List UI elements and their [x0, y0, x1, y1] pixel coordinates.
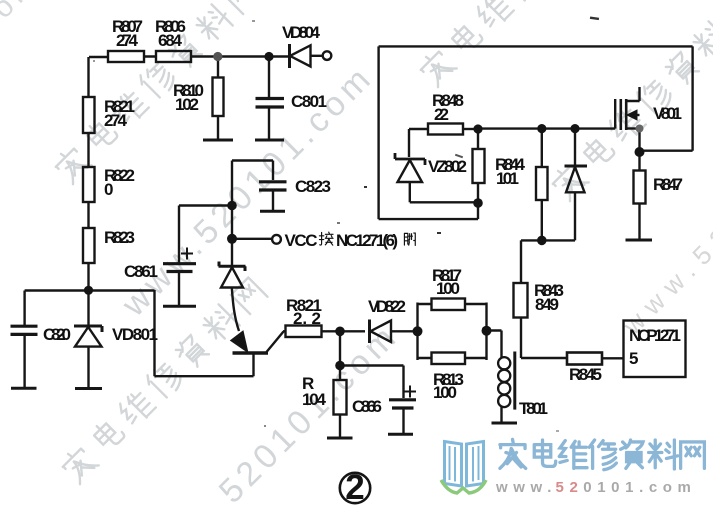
- svg-text:0101.com: 0101.com: [583, 479, 696, 496]
- svg-text:0: 0: [104, 180, 113, 199]
- svg-text:VCC: VCC: [285, 231, 318, 250]
- svg-text:www.: www.: [495, 479, 557, 496]
- svg-text:NCP1271: NCP1271: [629, 326, 681, 345]
- svg-text:VZ802: VZ802: [428, 157, 467, 176]
- svg-text:C866: C866: [352, 397, 382, 416]
- svg-text:NC1271(6): NC1271(6): [336, 231, 398, 250]
- svg-text:2. 2: 2. 2: [293, 309, 321, 328]
- svg-text:C820: C820: [43, 325, 71, 344]
- svg-text:684: 684: [158, 31, 183, 50]
- svg-text:R823: R823: [104, 228, 135, 247]
- svg-text:R847: R847: [653, 175, 683, 194]
- svg-text:5: 5: [629, 349, 638, 368]
- svg-text:101: 101: [496, 169, 519, 188]
- svg-text:C823: C823: [295, 177, 331, 196]
- svg-text:VD804: VD804: [282, 23, 321, 42]
- svg-text:T801: T801: [519, 399, 548, 418]
- svg-text:274: 274: [116, 31, 139, 50]
- svg-text:22: 22: [434, 105, 449, 124]
- svg-text:R845: R845: [569, 365, 602, 384]
- svg-text:849: 849: [535, 295, 559, 314]
- svg-text:100: 100: [433, 383, 457, 402]
- svg-text:100: 100: [436, 279, 460, 298]
- svg-text:VD801: VD801: [112, 325, 158, 344]
- svg-text:52: 52: [556, 479, 584, 496]
- svg-text:V801: V801: [653, 104, 682, 123]
- svg-text:C801: C801: [291, 92, 327, 111]
- svg-text:VD822: VD822: [368, 297, 406, 316]
- svg-text:274: 274: [104, 111, 128, 130]
- svg-text:2: 2: [345, 468, 364, 507]
- svg-text:102: 102: [175, 95, 199, 114]
- svg-text:104: 104: [302, 390, 327, 409]
- svg-text:C861: C861: [124, 262, 158, 281]
